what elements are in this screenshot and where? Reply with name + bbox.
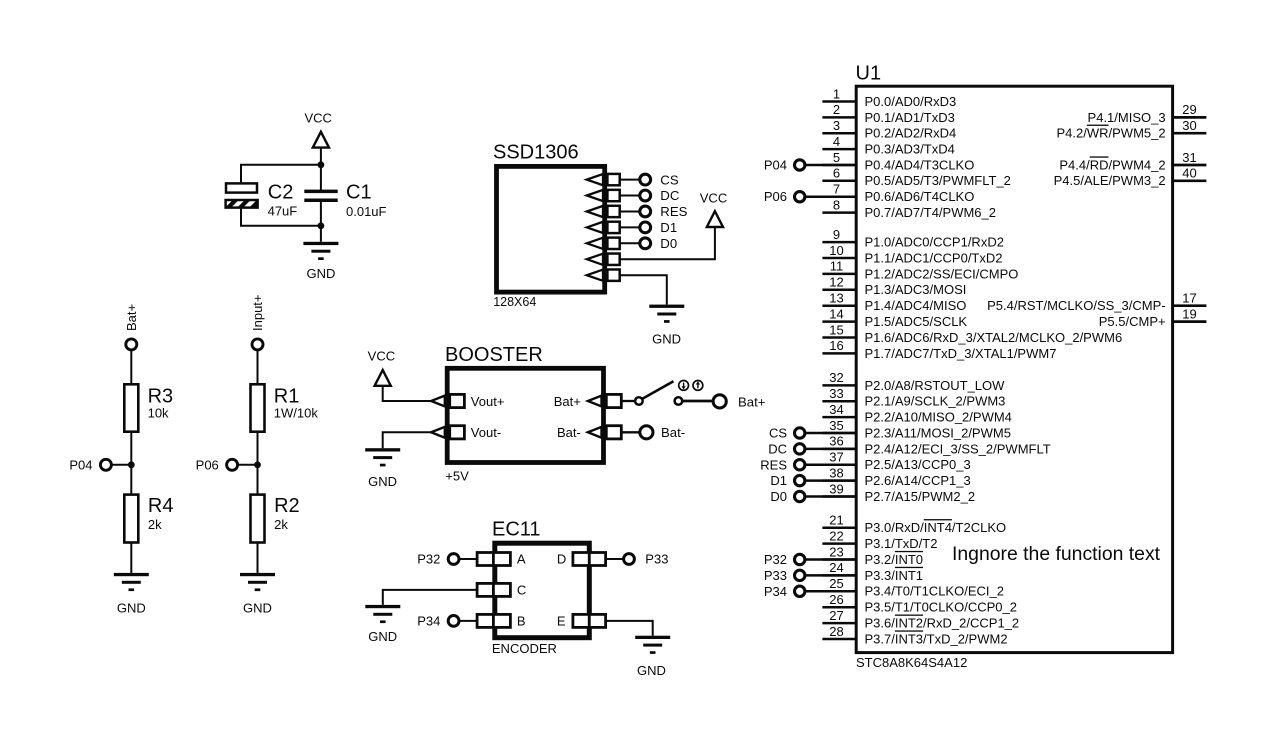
svg-text:VCC: VCC [368, 349, 395, 364]
svg-text:2k: 2k [148, 517, 162, 532]
svg-text:P06: P06 [196, 457, 219, 472]
svg-text:Vout+: Vout+ [471, 394, 505, 409]
svg-text:P1.6/ADC6/RxD_3/XTAL2/MCLKO_2/: P1.6/ADC6/RxD_3/XTAL2/MCLKO_2/PWM6 [865, 330, 1123, 345]
svg-text:P2.3/A11/MOSI_2/PWM5: P2.3/A11/MOSI_2/PWM5 [865, 425, 1011, 440]
svg-text:34: 34 [829, 402, 843, 417]
svg-text:CS: CS [769, 426, 787, 441]
svg-text:38: 38 [829, 465, 843, 480]
svg-text:P1.1/ADC1/CCP0/TxD2: P1.1/ADC1/CCP0/TxD2 [865, 250, 1003, 265]
svg-text:12: 12 [829, 275, 843, 290]
svg-text:Input+: Input+ [250, 294, 265, 331]
svg-text:P0.5/AD5/T3/PWMFLT_2: P0.5/AD5/T3/PWMFLT_2 [865, 173, 1011, 188]
svg-text:P1.2/ADC2/SS/ECI/CMPO: P1.2/ADC2/SS/ECI/CMPO [865, 266, 1019, 281]
svg-text:35: 35 [829, 418, 843, 433]
svg-text:7: 7 [833, 182, 840, 197]
svg-text:32: 32 [829, 370, 843, 385]
svg-text:13: 13 [829, 291, 843, 306]
svg-text:P4.5/ALE/PWM3_2: P4.5/ALE/PWM3_2 [1054, 173, 1166, 188]
svg-text:GND: GND [637, 663, 666, 678]
svg-text:D: D [557, 552, 566, 567]
svg-text:47uF: 47uF [268, 203, 298, 218]
svg-text:P5.5/CMP+: P5.5/CMP+ [1099, 314, 1166, 329]
svg-text:GND: GND [306, 266, 335, 281]
svg-text:1: 1 [833, 86, 840, 101]
svg-text:P3.7/INT3/TxD_2/PWM2: P3.7/INT3/TxD_2/PWM2 [865, 631, 1008, 646]
svg-text:P2.7/A15/PWM2_2: P2.7/A15/PWM2_2 [865, 489, 976, 504]
svg-text:EC11: EC11 [492, 518, 541, 540]
svg-text:U1: U1 [856, 62, 882, 84]
svg-text:P34: P34 [764, 584, 787, 599]
svg-text:2: 2 [833, 102, 840, 117]
svg-text:P2.6/A14/CCP1_3: P2.6/A14/CCP1_3 [865, 473, 971, 488]
svg-text:Bat-: Bat- [661, 425, 685, 440]
svg-text:P06: P06 [764, 189, 787, 204]
svg-text:DC: DC [660, 188, 680, 203]
svg-text:P2.5/A13/CCP0_3: P2.5/A13/CCP0_3 [865, 457, 971, 472]
svg-text:17: 17 [1182, 291, 1196, 306]
svg-text:5: 5 [833, 150, 840, 165]
svg-text:P3.4/T0/T1CLKO/ECI_2: P3.4/T0/T1CLKO/ECI_2 [865, 584, 1004, 599]
svg-text:P1.4/ADC4/MISO: P1.4/ADC4/MISO [865, 298, 967, 313]
svg-text:VCC: VCC [304, 111, 331, 126]
svg-text:128X64: 128X64 [493, 295, 536, 309]
svg-text:23: 23 [829, 544, 843, 559]
svg-text:P4.2/WR/PWM5_2: P4.2/WR/PWM5_2 [1056, 126, 1165, 141]
svg-text:3: 3 [833, 118, 840, 133]
svg-text:P3.3/INT1: P3.3/INT1 [865, 568, 924, 583]
svg-text:14: 14 [829, 306, 843, 321]
svg-text:P34: P34 [417, 614, 440, 629]
svg-text:P04: P04 [69, 457, 92, 472]
svg-text:P4.1/MISO_3: P4.1/MISO_3 [1088, 110, 1166, 125]
svg-text:0.01uF: 0.01uF [346, 204, 387, 219]
svg-text:C: C [517, 583, 526, 598]
svg-text:Bat+: Bat+ [124, 304, 139, 331]
svg-text:A: A [517, 552, 526, 567]
svg-text:+5V: +5V [445, 468, 469, 483]
svg-text:CS: CS [660, 172, 679, 187]
svg-text:24: 24 [829, 560, 843, 575]
svg-text:26: 26 [829, 592, 843, 607]
svg-text:P1.3/ADC3/MOSI: P1.3/ADC3/MOSI [865, 282, 967, 297]
svg-text:D0: D0 [660, 236, 677, 251]
svg-text:27: 27 [829, 608, 843, 623]
svg-text:GND: GND [368, 629, 397, 644]
svg-text:STC8A8K64S4A12: STC8A8K64S4A12 [856, 655, 967, 670]
svg-text:P5.4/RST/MCLKO/SS_3/CMP-: P5.4/RST/MCLKO/SS_3/CMP- [987, 298, 1165, 313]
svg-text:GND: GND [117, 601, 146, 616]
svg-text:36: 36 [829, 434, 843, 449]
svg-text:P33: P33 [764, 568, 787, 583]
svg-text:Ingnore the function text: Ingnore the function text [952, 543, 1161, 565]
svg-text:SSD1306: SSD1306 [493, 142, 579, 164]
svg-text:P32: P32 [764, 552, 787, 567]
svg-text:15: 15 [829, 322, 843, 337]
svg-text:C2: C2 [268, 182, 294, 204]
svg-text:22: 22 [829, 528, 843, 543]
svg-text:P3.1/TxD/T2: P3.1/TxD/T2 [865, 536, 938, 551]
svg-text:P2.1/A9/SCLK_2/PWM3: P2.1/A9/SCLK_2/PWM3 [865, 394, 1006, 409]
svg-text:P3.6/INT2/RxD_2/CCP1_2: P3.6/INT2/RxD_2/CCP1_2 [865, 616, 1020, 631]
svg-text:2k: 2k [274, 517, 288, 532]
svg-text:P0.0/AD0/RxD3: P0.0/AD0/RxD3 [865, 94, 957, 109]
svg-text:P0.2/AD2/RxD4: P0.2/AD2/RxD4 [865, 126, 957, 141]
svg-text:P2.4/A12/ECI_3/SS_2/PWMFLT: P2.4/A12/ECI_3/SS_2/PWMFLT [865, 441, 1051, 456]
svg-text:R4: R4 [148, 495, 174, 517]
svg-text:P0.4/AD4/T3CLKO: P0.4/AD4/T3CLKO [865, 157, 975, 172]
svg-text:P1.5/ADC5/SCLK: P1.5/ADC5/SCLK [865, 314, 968, 329]
svg-text:11: 11 [830, 259, 844, 274]
svg-text:P0.6/AD6/T4CLKO: P0.6/AD6/T4CLKO [865, 189, 975, 204]
svg-text:29: 29 [1182, 102, 1196, 117]
svg-text:Bat-: Bat- [557, 425, 581, 440]
svg-text:10: 10 [829, 243, 843, 258]
svg-text:P2.2/A10/MISO_2/PWM4: P2.2/A10/MISO_2/PWM4 [865, 410, 1012, 425]
svg-text:10k: 10k [148, 406, 169, 421]
svg-text:4: 4 [833, 134, 840, 149]
svg-text:30: 30 [1182, 118, 1196, 133]
svg-text:ENCODER: ENCODER [492, 641, 557, 656]
svg-text:21: 21 [829, 513, 843, 528]
svg-text:D1: D1 [770, 473, 787, 488]
svg-text:R2: R2 [274, 495, 300, 517]
svg-text:16: 16 [829, 338, 843, 353]
svg-text:E: E [557, 614, 566, 629]
svg-text:D0: D0 [770, 489, 787, 504]
svg-text:6: 6 [833, 166, 840, 181]
svg-text:P04: P04 [764, 157, 787, 172]
svg-text:P3.2/INT0: P3.2/INT0 [865, 552, 924, 567]
svg-text:19: 19 [1182, 306, 1196, 321]
svg-text:Vout-: Vout- [471, 425, 501, 440]
svg-text:31: 31 [1182, 150, 1196, 165]
svg-text:P0.1/AD1/TxD3: P0.1/AD1/TxD3 [865, 110, 955, 125]
svg-text:28: 28 [829, 624, 843, 639]
svg-text:P0.3/AD3/TxD4: P0.3/AD3/TxD4 [865, 142, 955, 157]
svg-text:GND: GND [368, 474, 397, 489]
svg-text:RES: RES [660, 204, 687, 219]
svg-text:R1: R1 [274, 386, 300, 408]
svg-text:D1: D1 [660, 220, 677, 235]
svg-text:R3: R3 [148, 386, 174, 408]
svg-text:P2.0/A8/RSTOUT_LOW: P2.0/A8/RSTOUT_LOW [865, 378, 1006, 393]
svg-text:C1: C1 [346, 182, 372, 204]
svg-text:1W/10k: 1W/10k [274, 406, 319, 421]
svg-text:Bat+: Bat+ [554, 394, 581, 409]
svg-text:P1.0/ADC0/CCP1/RxD2: P1.0/ADC0/CCP1/RxD2 [865, 235, 1004, 250]
svg-text:Bat+: Bat+ [738, 394, 766, 409]
svg-text:GND: GND [652, 331, 681, 346]
svg-text:9: 9 [833, 227, 840, 242]
svg-text:B: B [517, 614, 526, 629]
svg-text:P33: P33 [645, 552, 668, 567]
svg-text:40: 40 [1182, 166, 1196, 181]
svg-text:P0.7/AD7/T4/PWM6_2: P0.7/AD7/T4/PWM6_2 [865, 205, 997, 220]
svg-text:37: 37 [829, 450, 843, 465]
svg-text:P1.7/ADC7/TxD_3/XTAL1/PWM7: P1.7/ADC7/TxD_3/XTAL1/PWM7 [865, 346, 1057, 361]
svg-text:P3.5/T1/T0CLKO/CCP0_2: P3.5/T1/T0CLKO/CCP0_2 [865, 600, 1017, 615]
svg-text:GND: GND [243, 601, 272, 616]
svg-text:25: 25 [829, 576, 843, 591]
svg-text:39: 39 [829, 481, 843, 496]
svg-text:P3.0/RxD/INT4/T2CLKO: P3.0/RxD/INT4/T2CLKO [865, 520, 1007, 535]
svg-text:8: 8 [833, 197, 840, 212]
svg-text:RES: RES [760, 457, 787, 472]
svg-text:BOOSTER: BOOSTER [445, 344, 543, 366]
svg-text:VCC: VCC [700, 190, 727, 205]
svg-text:P32: P32 [417, 552, 440, 567]
svg-text:33: 33 [829, 386, 843, 401]
svg-text:P4.4/RD/PWM4_2: P4.4/RD/PWM4_2 [1059, 157, 1165, 172]
svg-text:DC: DC [768, 441, 787, 456]
